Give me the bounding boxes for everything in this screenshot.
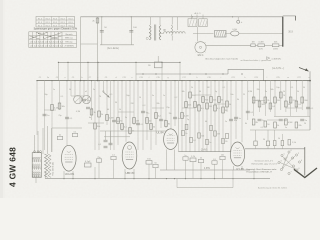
- svg-text:2k: 2k: [200, 157, 202, 159]
- svg-text:g: g: [167, 77, 168, 79]
- wire vertical drop x110: [110, 81, 112, 150]
- capacitor C11 5n: [141, 111, 148, 114]
- svg-text:5n: 5n: [239, 118, 241, 120]
- svg-text:n: n: [308, 77, 309, 79]
- wire vertical drop x161: [160, 81, 162, 128]
- value label 5p (23): [215, 91, 217, 93]
- svg-text:Gleichlauf abgleichen nach Tab: Gleichlauf abgleichen nach Tabelle: [205, 58, 239, 60]
- wire vertical drop x254: [253, 80, 254, 116]
- value label 2p (44): [187, 119, 189, 121]
- wire vertical drop x122: [121, 80, 122, 131]
- label UCH81: [65, 172, 75, 176]
- wire vertical drop x265: [265, 80, 266, 116]
- svg-text:9: 9: [287, 157, 288, 159]
- svg-text:C15: C15: [156, 77, 159, 79]
- svg-text:1n: 1n: [184, 155, 186, 157]
- svg-text:8k: 8k: [168, 123, 170, 125]
- label UL84: [156, 131, 164, 135]
- wire riser x193: [192, 162, 194, 179]
- svg-text:C13: C13: [139, 77, 142, 79]
- wire link bus62 x88: [87, 62, 88, 81]
- svg-text:C23: C23: [254, 77, 257, 79]
- resistor R12 0,1: [121, 124, 128, 130]
- resistor R40 heater dropper (zigzag): [45, 154, 52, 177]
- wire bus mid (y74): [136, 69, 264, 80]
- svg-text:30: 30: [225, 141, 227, 143]
- svg-text:50k: 50k: [201, 135, 204, 137]
- value label 4n (39): [89, 117, 91, 119]
- svg-text:0,1: 0,1: [291, 87, 294, 89]
- svg-text:5n: 5n: [209, 142, 211, 144]
- svg-text:20: 20: [304, 123, 306, 125]
- resistor R27 0,1: [214, 105, 221, 111]
- capacitor C5 5n: [43, 114, 50, 117]
- capacitor Cm5 30: [222, 138, 228, 143]
- value label 0,5 (42): [147, 113, 150, 115]
- resistor R26 10k: [210, 97, 217, 103]
- wire bus AVC (y62): [58, 61, 180, 63]
- label above bus h: [196, 77, 197, 79]
- wire vertical drop x227: [226, 81, 228, 112]
- wire vertical drop x67: [66, 80, 67, 145]
- svg-text:2p: 2p: [187, 119, 189, 121]
- capacitor Cm0 2n: [182, 130, 188, 135]
- resistor R40 300: [301, 97, 309, 103]
- wire riser x95: [94, 167, 96, 179]
- wire vertical drop x99: [98, 80, 99, 150]
- wire vertical drop x219: [218, 81, 220, 152]
- capacitor C12 50: [159, 119, 167, 122]
- wire to pointer: [304, 147, 306, 176]
- svg-text:k: k: [245, 77, 246, 79]
- wire vertical pair right of table: [97, 17, 98, 82]
- value label 15k (43): [168, 113, 171, 115]
- value label 1n (1): [53, 89, 55, 91]
- resistor R1 dropper: [92, 18, 98, 23]
- svg-text:2n: 2n: [93, 89, 95, 91]
- resistor R30 1k: [226, 101, 231, 107]
- wire jog y96: [71, 95, 84, 97]
- wire vertical drop x130: [129, 80, 130, 135]
- table dial cord / alignment (lower): [29, 32, 77, 48]
- label above bus C5: [72, 77, 74, 79]
- label above bus C15: [156, 77, 159, 79]
- wire vertical drop x242: [241, 80, 242, 142]
- svg-text:c: c: [98, 77, 99, 79]
- svg-text:0,1µF: 0,1µF: [85, 161, 91, 163]
- wire right edge vertical: [309, 71, 311, 130]
- wire jog y100: [253, 100, 265, 102]
- value label 20k (15): [156, 103, 159, 105]
- value label 3n (41): [125, 117, 127, 119]
- label above bus d: [115, 77, 116, 79]
- capacitor Cb0 25n: [96, 157, 101, 162]
- svg-text:185V: 185V: [273, 48, 279, 50]
- svg-text:1n: 1n: [225, 121, 227, 123]
- capacitor C13 2n: [173, 117, 180, 120]
- label above bus C3: [56, 77, 58, 79]
- resistor R25 2M: [206, 103, 212, 109]
- svg-text:30: 30: [303, 87, 305, 89]
- label above bus f: [149, 77, 150, 79]
- tube V2 UBF80 (envelope): [122, 142, 137, 169]
- band switch S1: [103, 91, 110, 98]
- wire vertical from table to bus (left): [80, 17, 81, 82]
- label above bus C27: [297, 77, 300, 79]
- capacitor C18 50p: [279, 119, 288, 122]
- note text measurement (line3): [247, 168, 278, 171]
- svg-text:0,5M: 0,5M: [288, 122, 293, 124]
- svg-text:0,5M: 0,5M: [248, 91, 253, 93]
- wire vertical drop x215: [214, 80, 215, 152]
- capacitor C50: [254, 130, 257, 149]
- wire link bus62 x162: [161, 62, 162, 81]
- tuning gang section a: [74, 95, 82, 103]
- wire vertical drop x248: [247, 81, 249, 120]
- wire link bus62 x136: [135, 62, 136, 81]
- left page edge shading: [0, 0, 5, 198]
- label above bus k: [245, 77, 246, 79]
- resistor R24 70k: [202, 97, 209, 103]
- svg-text:2k: 2k: [101, 114, 103, 116]
- capacitor Cb5 0,5: [212, 159, 217, 164]
- value label 0,1 (34): [291, 87, 294, 89]
- svg-text:3k: 3k: [237, 99, 239, 101]
- resistor R7 1k: [90, 109, 95, 115]
- capacitor C40 0,1uF: [85, 161, 92, 167]
- resistor R13 25: [129, 128, 135, 134]
- svg-text:UBF 80: UBF 80: [125, 171, 135, 175]
- resistor R28 5k: [218, 97, 223, 103]
- label above bus C23: [254, 77, 257, 79]
- svg-text:(2,4V): (2,4V): [201, 149, 208, 152]
- svg-text:2n: 2n: [262, 120, 264, 122]
- svg-text:4 GW 648: 4 GW 648: [8, 147, 18, 187]
- wire riser x156: [155, 168, 157, 179]
- resistor R4: [272, 42, 279, 51]
- svg-text:20k: 20k: [156, 103, 159, 105]
- wire vertical drop x178: [178, 81, 180, 152]
- svg-text:1M: 1M: [207, 87, 210, 89]
- wire vertical drop x151: [150, 81, 152, 150]
- svg-text:25: 25: [243, 94, 245, 96]
- value label 20 (50): [304, 123, 306, 125]
- arrow heater continuation: [299, 68, 309, 72]
- svg-text:C7: C7: [89, 77, 91, 79]
- wire vertical drop x175: [174, 80, 175, 126]
- wire vertical drop x147: [146, 80, 147, 140]
- wire link bus74 x206: [205, 73, 206, 74]
- svg-text:C1: C1: [39, 77, 41, 79]
- wire main bus (y80.5): [37, 80, 311, 82]
- wire jog y110: [44, 109, 56, 111]
- capacitor C15 5n: [234, 117, 241, 120]
- label above bus m: [287, 77, 289, 79]
- capacitor C20 0,1: [306, 107, 314, 110]
- resistor R23 0,5: [198, 105, 205, 111]
- svg-text:1k: 1k: [283, 91, 285, 93]
- inductor L2 coupling coils: [161, 32, 186, 34]
- value label 30 (8): [115, 102, 117, 104]
- wire bus y123: [88, 122, 104, 124]
- resistor R8 50k: [94, 123, 101, 129]
- resistor R6 30k: [58, 103, 65, 109]
- capacitor C6 0,1: [65, 117, 73, 120]
- svg-text:1k: 1k: [277, 125, 279, 127]
- wire link bus62 x68: [67, 62, 68, 81]
- svg-text:5k: 5k: [288, 104, 290, 106]
- caption coil note: [205, 57, 281, 61]
- value label 10 (12): [139, 97, 141, 99]
- wire link bus62 x180: [179, 62, 180, 81]
- label above bus C19: [207, 77, 210, 79]
- wire bottom bus y178: [45, 178, 270, 179]
- tuning indicator tube EM4 (magic eye): [195, 42, 206, 53]
- resistor R18 8k: [165, 121, 170, 127]
- value label 5n (49): [285, 127, 287, 129]
- svg-text:0,2: 0,2: [175, 97, 178, 99]
- svg-text:h: h: [196, 77, 197, 79]
- svg-text:5n: 5n: [47, 115, 49, 117]
- wire link bus62 x58: [58, 62, 59, 81]
- wire vertical drop x231: [230, 80, 231, 152]
- value label 0,5 (7): [110, 94, 113, 96]
- resistor R10 0,3M: [106, 115, 114, 121]
- wire link bus74 x223: [222, 73, 223, 74]
- wire mid link: [193, 33, 214, 35]
- wire vertical drop x286: [285, 80, 286, 112]
- label above bus i: [221, 77, 222, 79]
- value label 40 (45): [205, 121, 207, 123]
- power unit terminal circles: [34, 151, 42, 153]
- wire vertical drop x171: [170, 81, 172, 130]
- wire vertical drop x84: [83, 80, 84, 97]
- wire jog y95: [195, 94, 211, 96]
- value label 2n (30): [265, 91, 267, 93]
- svg-text:0,5: 0,5: [147, 113, 150, 115]
- svg-text:2n: 2n: [91, 108, 93, 110]
- value label 70 (6): [99, 96, 101, 98]
- tube V1 cathode leads: [64, 171, 73, 179]
- resistor R31 0,1M: [252, 97, 260, 103]
- wire sperrkreis stub: [148, 56, 162, 68]
- label above bus g: [167, 77, 168, 79]
- label TGL vertical: [52, 162, 55, 176]
- resistor R37 5k: [285, 101, 290, 107]
- wire riser x99: [98, 162, 100, 178]
- label above bus C9: [105, 77, 107, 79]
- label above bus C7: [89, 77, 91, 79]
- svg-text:1k: 1k: [94, 112, 96, 114]
- svg-text:4: 4: [301, 160, 302, 162]
- resistor R17 0,2: [155, 113, 162, 119]
- dial lamp La1 (ellipse): [226, 28, 283, 36]
- label above bus c: [98, 77, 99, 79]
- wire vertical drop x107: [106, 80, 107, 125]
- power unit block (Netzteil): [32, 153, 41, 178]
- resistor R21 300: [189, 92, 197, 98]
- svg-text:50k: 50k: [188, 104, 191, 106]
- svg-text:50: 50: [199, 91, 201, 93]
- svg-text:a1: a1: [85, 91, 87, 93]
- resistor R35 1M: [274, 97, 280, 103]
- svg-text:Röhrenvoltm. geg. Ch. 0,3 V: Röhrenvoltm. geg. Ch. 0,3 V: [252, 163, 278, 166]
- svg-text:C25: C25: [276, 77, 279, 79]
- svg-text:1k: 1k: [278, 138, 280, 140]
- svg-text:1M: 1M: [136, 120, 139, 122]
- svg-text:UL 84: UL 84: [156, 131, 164, 135]
- wire bus y137: [104, 136, 130, 138]
- wire vertical drop x211: [210, 81, 212, 152]
- svg-text:0,1: 0,1: [223, 87, 226, 89]
- value label 0,1M (38): [76, 111, 81, 113]
- wire vertical drop x236: [235, 81, 237, 139]
- svg-text:5n: 5n: [47, 77, 49, 79]
- svg-text:8k: 8k: [245, 123, 247, 125]
- note text measurement (line1): [255, 160, 274, 163]
- label UY85: [236, 167, 244, 171]
- wire block bottom link: [36, 172, 45, 183]
- value label 1M (22): [207, 87, 210, 89]
- value label 25p (37): [58, 115, 61, 117]
- svg-text:= 468 kHz: = 468 kHz: [272, 58, 282, 60]
- wire vertical drop x126: [125, 81, 127, 142]
- value label 50k (31): [270, 89, 273, 91]
- label above bus C17: [182, 77, 185, 79]
- svg-text:Ausführung ab Gerät Nr. 52001: Ausführung ab Gerät Nr. 52001: [258, 187, 288, 190]
- svg-text:2k: 2k: [191, 87, 193, 89]
- wire link3: [279, 44, 283, 46]
- svg-text:10n: 10n: [230, 94, 233, 96]
- svg-text:2n: 2n: [178, 118, 180, 120]
- svg-text:5n: 5n: [285, 127, 287, 129]
- svg-text:10p: 10p: [276, 87, 279, 89]
- wire bus y151 (2,4V): [179, 149, 232, 152]
- wire link bus74 x242: [241, 73, 242, 74]
- wire drehko to eye: [197, 27, 199, 42]
- svg-text:0,1: 0,1: [261, 127, 264, 129]
- capacitor C14 10n: [229, 119, 237, 122]
- svg-text:10n: 10n: [234, 120, 237, 122]
- label above bus C25: [276, 77, 279, 79]
- svg-text:7: 7: [291, 171, 292, 173]
- svg-text:TGL 200 0,1A: TGL 200 0,1A: [52, 162, 55, 176]
- resistor R44 1,5k: [288, 140, 297, 146]
- svg-text:UCH 81: UCH 81: [65, 172, 75, 176]
- value label 70p (17): [166, 107, 169, 109]
- resistor R19 0,1M: [181, 113, 189, 119]
- wire vertical drop x195: [194, 81, 196, 152]
- value label 50p (10): [126, 95, 129, 97]
- svg-text:30p: 30p: [44, 94, 47, 96]
- svg-text:d: d: [115, 77, 116, 79]
- pointer arrow (large): [294, 168, 317, 178]
- svg-text:5k: 5k: [297, 91, 299, 93]
- wire link: [255, 44, 257, 46]
- svg-text:25p: 25p: [58, 115, 61, 117]
- capacitor Cm7: [210, 125, 213, 130]
- wire vertical drop x95: [94, 81, 96, 150]
- svg-text:70k: 70k: [256, 89, 259, 91]
- svg-text:2: 2: [298, 153, 299, 155]
- capacitor Cb8 0,1: [72, 131, 77, 136]
- svg-text:5n: 5n: [59, 134, 61, 136]
- resistor R14 1M: [133, 118, 139, 124]
- label above bus C13: [139, 77, 142, 79]
- svg-text:1k: 1k: [119, 109, 121, 111]
- svg-text:C5: C5: [72, 77, 74, 79]
- wire vertical drop x296: [296, 80, 297, 112]
- resistor R9 2k: [98, 111, 103, 117]
- capacitor C1 antenna: [100, 17, 108, 45]
- wire bus y128 left: [52, 127, 82, 129]
- svg-text:b: b: [81, 77, 82, 79]
- svg-text:25n: 25n: [97, 157, 100, 159]
- wire link bus74 x190: [189, 73, 190, 74]
- antenna terminal: [237, 17, 243, 24]
- resistor R45 20k: [295, 122, 302, 128]
- capacitor Cb6 10n: [220, 154, 225, 159]
- capacitor Cm8: [226, 133, 229, 138]
- capacitor Cm1 0,1: [190, 137, 196, 142]
- svg-text:5n: 5n: [305, 120, 307, 122]
- capacitor C9 10n: [112, 120, 120, 123]
- value label 60 (40): [107, 109, 109, 111]
- svg-text:30k: 30k: [62, 106, 65, 108]
- resistor R5 0,1M: [51, 105, 59, 111]
- wire vertical drop x182: [181, 80, 182, 152]
- wire antenna-earth link: [100, 44, 134, 46]
- svg-text:40V: 40V: [259, 48, 263, 50]
- svg-text:5k: 5k: [69, 89, 71, 91]
- capacitor Cb3 1n: [183, 155, 188, 160]
- resistor R41: [146, 158, 152, 164]
- table voltages (upper): [36, 17, 75, 28]
- wire riser x114: [113, 160, 115, 179]
- svg-text:C21: C21: [231, 77, 234, 79]
- svg-text:50k: 50k: [270, 89, 273, 91]
- wire jog y108: [152, 107, 164, 109]
- svg-text:50: 50: [263, 139, 265, 141]
- svg-text:10n: 10n: [117, 121, 120, 123]
- svg-text:3n: 3n: [125, 117, 127, 119]
- resistor R36 70: [280, 92, 286, 98]
- svg-text:50k: 50k: [262, 104, 265, 106]
- wire B+ drop (dark vertical): [282, 17, 284, 47]
- wire top B+ rail: [81, 16, 284, 17]
- svg-text:5k: 5k: [221, 99, 223, 101]
- svg-text:70p: 70p: [166, 107, 169, 109]
- value label 1n (46): [225, 121, 227, 123]
- svg-text:Zf 468kHz: Zf 468kHz: [64, 46, 73, 48]
- wire riser x149: [148, 164, 150, 179]
- svg-text:1n: 1n: [53, 89, 55, 91]
- resistor R29 30: [222, 107, 228, 113]
- svg-text:1M: 1M: [277, 100, 280, 102]
- svg-text:A G O: A G O: [195, 12, 201, 15]
- value label 0,1 (48): [261, 127, 264, 129]
- value label 0,2 (18): [175, 97, 178, 99]
- resistor R43 1k: [274, 122, 279, 128]
- label 30,9: [288, 32, 293, 34]
- resistor R22 1M: [194, 102, 200, 108]
- value label 30k (19): [181, 91, 184, 93]
- value label 30 (36): [303, 87, 305, 89]
- svg-text:C3: C3: [56, 77, 58, 79]
- svg-text:20k: 20k: [298, 125, 301, 127]
- svg-text:70: 70: [99, 96, 101, 98]
- wire vertical drop x37: [36, 80, 37, 135]
